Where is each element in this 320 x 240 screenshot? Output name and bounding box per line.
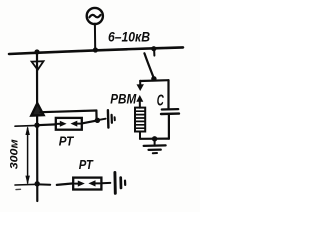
- ground main: [154, 139, 156, 145]
- svg-text:300м: 300м: [8, 139, 20, 169]
- disconnector blade: [144, 53, 154, 78]
- wire capacitor branch lower: [168, 115, 170, 139]
- cable termination (filled triangle): [31, 103, 44, 116]
- svg-text:РВМ: РВМ: [110, 91, 137, 106]
- node bus-right: [151, 46, 156, 51]
- arrester RVM lower electrode (up arrow): [136, 95, 143, 102]
- spark gap FV1 (triangle on line): [32, 61, 44, 70]
- ground (rotated) of arrester RT2: [113, 173, 116, 194]
- tube arrester RT2 (box): [73, 178, 101, 190]
- wire A (upper tap to gap-ground): [41, 111, 97, 113]
- RT1 right arrow: [76, 123, 80, 125]
- wire gap to RT2: [57, 183, 74, 185]
- wire RT1 output: [82, 120, 98, 123]
- ground (rotated) of arrester RT1: [107, 110, 110, 127]
- wire left conductor: [36, 52, 38, 201]
- RT2 left arrow: [75, 183, 80, 185]
- svg-text:С: С: [157, 93, 164, 110]
- svg-text:6–10кВ: 6–10кВ: [108, 29, 150, 45]
- disconnector fixed contact: [153, 49, 155, 55]
- node A junction: [95, 118, 100, 123]
- node tap RT1: [34, 123, 39, 128]
- stray mark: [16, 188, 21, 190]
- capacitor C plates: [162, 108, 178, 111]
- RT1 left arrow: [57, 123, 61, 125]
- wire capacitor branch upper: [167, 80, 169, 108]
- node tap RT2: [35, 181, 40, 186]
- tube arrester RT1 (box): [56, 118, 82, 130]
- svg-text:РТ: РТ: [59, 133, 74, 148]
- dimension tick bottom: [15, 183, 38, 186]
- wire RT2 output: [101, 182, 110, 184]
- generator G1 (AC source circle): [87, 8, 103, 24]
- wire pivot horizontal: [140, 79, 168, 82]
- node bus-generator: [93, 47, 98, 52]
- wire generator to bus: [94, 24, 96, 51]
- wire node to gap RT2: [39, 183, 51, 185]
- bus 6-10kV: [9, 47, 183, 54]
- RT2 right arrow: [96, 182, 100, 184]
- node bottom: [152, 136, 157, 141]
- wire RVM to bottom: [139, 132, 141, 139]
- arrester RVM body (hatched box): [135, 108, 145, 132]
- arrester RVM upper electrode (down arrow): [139, 81, 141, 85]
- wire bottom joining: [140, 138, 169, 140]
- node pivot: [151, 76, 156, 81]
- wire A corner down: [95, 111, 97, 121]
- node bus-left: [34, 49, 39, 54]
- generator tilde: [89, 15, 100, 17]
- wire tick left of RT1 node: [15, 124, 38, 127]
- svg-text:РТ: РТ: [79, 157, 94, 172]
- dimension line 300m: [27, 128, 29, 183]
- wire junction to gap: [97, 119, 105, 121]
- wire node to RT1: [37, 123, 56, 126]
